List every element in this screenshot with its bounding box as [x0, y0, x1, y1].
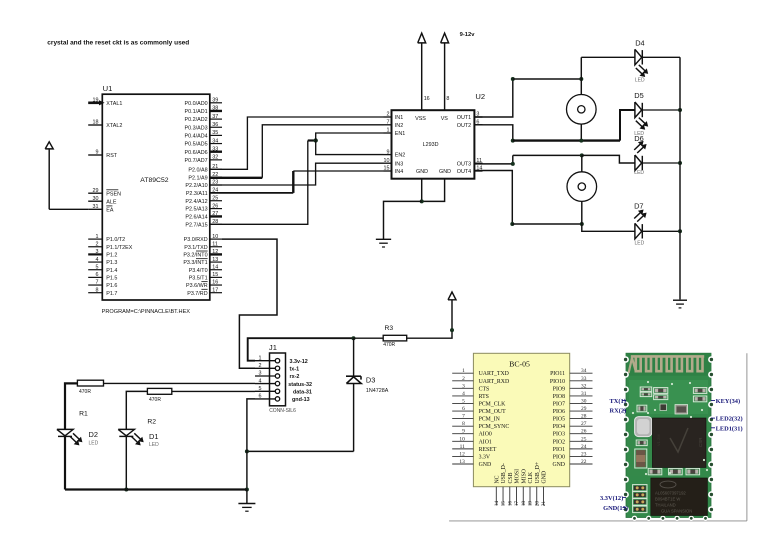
svg-text:25: 25 — [581, 436, 587, 442]
svg-text:RTS: RTS — [479, 394, 489, 400]
wire to motor M2 bottom — [512, 223, 582, 225]
svg-text:LED2(32): LED2(32) — [716, 416, 743, 423]
pin 6 J1 gnd-13 — [255, 394, 310, 404]
pin 28 HC-05 PIO5 — [553, 414, 593, 423]
svg-text:CSR: CSR — [698, 437, 703, 447]
R1 label — [79, 411, 88, 418]
svg-text:19: 19 — [528, 501, 534, 507]
wire D5 to rail — [642, 109, 680, 111]
junction EN tie — [314, 138, 318, 142]
svg-text:32: 32 — [581, 383, 587, 389]
R2 label — [147, 419, 156, 426]
LED D2 — [57, 429, 73, 436]
svg-text:P0.6/AD6: P0.6/AD6 — [185, 150, 208, 156]
svg-text:EN1: EN1 — [395, 131, 406, 137]
svg-text:31: 31 — [93, 204, 99, 210]
svg-text:P2.1/A9: P2.1/A9 — [188, 175, 207, 181]
svg-text:AIO0: AIO0 — [479, 432, 492, 438]
wire to D6 — [582, 155, 635, 163]
svg-text:D5: D5 — [634, 91, 643, 100]
pin 5 HC-05 PCM_CLK — [452, 398, 506, 407]
svg-text:P1.3: P1.3 — [106, 260, 117, 266]
junction bottom rail — [245, 488, 249, 492]
svg-text:CONN-SIL6: CONN-SIL6 — [269, 408, 296, 414]
wire RXD to J1 tx — [222, 239, 277, 368]
LED D7 — [635, 223, 642, 239]
svg-text:XTAL1: XTAL1 — [106, 101, 122, 107]
svg-text:PIO3: PIO3 — [553, 432, 565, 438]
D7 value LED — [635, 240, 645, 246]
svg-text:EA: EA — [106, 207, 114, 213]
photo label LED2(32) — [711, 416, 743, 423]
svg-text:GND: GND — [416, 169, 428, 175]
svg-text:IN3: IN3 — [395, 161, 403, 167]
photo label GND(13) — [603, 505, 628, 512]
svg-text:PIO5: PIO5 — [553, 417, 565, 423]
pin 24 HC-05 PIO1 — [553, 444, 593, 453]
module HC-05 symbol body — [473, 353, 569, 486]
svg-text:U1: U1 — [103, 84, 113, 93]
wire M1 top lead — [580, 79, 582, 95]
svg-text:D1: D1 — [149, 432, 158, 441]
svg-text:27: 27 — [212, 211, 218, 217]
pin 8 P1.7 — [88, 287, 117, 296]
pin 19 XTAL1 — [88, 98, 122, 107]
svg-text:3.3V: 3.3V — [479, 454, 491, 460]
wire to D5 — [620, 110, 635, 141]
svg-text:20: 20 — [534, 501, 540, 507]
svg-text:D2: D2 — [89, 430, 98, 439]
pin 26 P2.5/A13 — [185, 203, 222, 212]
pin 1 HC-05 UART_TXD — [452, 368, 509, 377]
resistor R3 — [383, 335, 407, 341]
resistor R1 — [77, 380, 103, 386]
svg-text:16: 16 — [507, 501, 513, 507]
svg-text:P2.3/A11: P2.3/A11 — [186, 191, 208, 197]
pin 10 IN3 — [384, 158, 404, 167]
svg-text:OUT3: OUT3 — [457, 161, 471, 167]
svg-text:1N4728A: 1N4728A — [366, 388, 389, 394]
power arrow at R3 — [448, 292, 456, 300]
wire EN1 tie EN2 — [316, 133, 384, 155]
power arrow VS 9-12v — [441, 33, 449, 110]
svg-text:3.3V(12): 3.3V(12) — [600, 495, 623, 502]
svg-text:P2.2/A10: P2.2/A10 — [185, 183, 207, 189]
pin 13 P3.3/INT1 — [183, 257, 222, 266]
pin 4 J1 status-32 — [255, 378, 312, 388]
pin 29 HC-05 PIO6 — [553, 406, 593, 415]
pin 14 HC-05 NC — [494, 475, 501, 506]
pin 10 P3.0/RXD — [184, 234, 222, 243]
svg-text:PROGRAM=C:\PINNACLE\BT.HEX: PROGRAM=C:\PINNACLE\BT.HEX — [102, 309, 191, 315]
note text — [47, 40, 189, 47]
svg-text:P1.4: P1.4 — [106, 268, 117, 274]
U2 label — [475, 92, 485, 101]
wire to D7 — [582, 224, 635, 231]
svg-text:data-31: data-31 — [293, 390, 312, 396]
wire GND2 U2 — [422, 179, 445, 202]
svg-text:1: 1 — [259, 355, 262, 361]
svg-text:6: 6 — [96, 272, 99, 278]
svg-text:P0.2/AD2: P0.2/AD2 — [185, 117, 208, 123]
pin 31 HC-05 PIO8 — [553, 391, 593, 400]
pin 2 P1.1/T2EX — [88, 241, 133, 250]
wire R1 to D2 — [65, 383, 77, 429]
pin 23 HC-05 PIO0 — [553, 451, 593, 460]
svg-text:14: 14 — [494, 501, 500, 507]
svg-text:2: 2 — [259, 363, 262, 369]
pin 21 P2.0/A8 — [188, 164, 222, 173]
svg-text:P2.4/A12: P2.4/A12 — [185, 199, 207, 205]
svg-text:P2.7/A15: P2.7/A15 — [185, 222, 207, 228]
svg-text:CSB: CSB — [508, 472, 514, 483]
svg-text:rx-2: rx-2 — [290, 374, 300, 380]
svg-text:AIO1: AIO1 — [479, 439, 492, 445]
IC U2 L293D body — [392, 110, 475, 179]
pin 22 HC-05 GND — [552, 459, 592, 468]
pin 38 P0.1/AD1 — [185, 106, 222, 115]
svg-text:P0.5/AD5: P0.5/AD5 — [185, 142, 208, 148]
svg-text:11: 11 — [212, 241, 218, 247]
junction U2 gnd — [420, 199, 424, 203]
svg-text:38: 38 — [212, 106, 218, 112]
svg-text:GUA SPANSION: GUA SPANSION — [661, 509, 692, 514]
svg-text:TX(1): TX(1) — [610, 398, 626, 405]
svg-text:GND(13): GND(13) — [603, 505, 628, 512]
svg-text:AL05607397192: AL05607397192 — [655, 491, 686, 496]
pin 3 HC-05 CTS — [452, 383, 489, 392]
svg-text:22: 22 — [581, 459, 587, 465]
D3 value 1N4728A — [366, 388, 389, 394]
svg-text:status-32: status-32 — [288, 382, 312, 388]
junction M1 top — [579, 77, 583, 81]
svg-text:USB_D-: USB_D- — [501, 463, 507, 483]
D2 label — [89, 430, 98, 439]
svg-text:L293D: L293D — [423, 142, 439, 148]
svg-text:7: 7 — [462, 414, 465, 420]
wire EA to arrow — [49, 208, 88, 210]
svg-text:P2.0/A8: P2.0/A8 — [188, 167, 207, 173]
svg-text:tx-1: tx-1 — [290, 367, 300, 373]
svg-text:EN2: EN2 — [395, 153, 406, 159]
svg-text:P1.0/T2: P1.0/T2 — [106, 237, 125, 243]
svg-text:ALE: ALE — [106, 199, 117, 205]
junction M2 top — [580, 153, 584, 157]
wire R3 left — [354, 337, 384, 339]
LED D6 — [635, 155, 642, 171]
pin 11 P3.1/TXD — [184, 241, 222, 250]
LED D4 — [635, 49, 642, 65]
pin 1 J1 3.3v-12 — [255, 355, 308, 365]
svg-text:27: 27 — [581, 421, 587, 427]
wire thick motor M1 bottom rail — [513, 139, 620, 141]
svg-text:31: 31 — [581, 391, 587, 397]
svg-text:6: 6 — [259, 394, 262, 400]
pin 16 VSS label — [415, 96, 430, 122]
pin 5 J1 data-31 — [255, 386, 312, 396]
svg-text:NC: NC — [495, 475, 501, 483]
D7 arrows — [634, 210, 646, 222]
wire to motor M2 top — [513, 154, 582, 156]
pin 6 HC-05 PCM_OUT — [452, 406, 506, 415]
svg-text:9: 9 — [96, 150, 99, 156]
wire D7 to rail — [642, 230, 680, 232]
svg-text:10: 10 — [459, 436, 465, 442]
svg-text:P2.6/A14: P2.6/A14 — [185, 215, 207, 221]
wire R2 to D1 — [126, 391, 147, 429]
J1 value CONN-SIL6 — [269, 408, 296, 414]
svg-text:P0.7/AD7: P0.7/AD7 — [185, 158, 208, 164]
svg-text:4: 4 — [96, 257, 99, 263]
pin 39 P0.0/AD0 — [185, 98, 222, 107]
wire bottom rail LEDs — [65, 488, 247, 490]
svg-text:LED: LED — [635, 78, 645, 84]
svg-text:9: 9 — [462, 429, 465, 435]
wire OUT2 down — [474, 125, 512, 141]
svg-text:28: 28 — [581, 414, 587, 420]
svg-text:D3: D3 — [366, 375, 375, 384]
pin 10 HC-05 AIO1 — [452, 436, 492, 445]
pin 14 P3.4/T0 — [189, 264, 222, 273]
wire to motor M1 top — [513, 78, 582, 80]
svg-text:VS: VS — [441, 116, 449, 122]
svg-text:34: 34 — [212, 138, 218, 144]
svg-text:RX(2): RX(2) — [610, 408, 627, 415]
D5 arrows — [636, 118, 648, 130]
pin 1 EN1 — [384, 128, 406, 137]
svg-text:PIO11: PIO11 — [550, 371, 565, 377]
pin 16 P3.6/WR — [186, 280, 222, 289]
svg-text:470R: 470R — [383, 342, 395, 348]
pin 4 HC-05 RTS — [452, 391, 489, 400]
svg-text:5: 5 — [462, 398, 465, 404]
pin 1 P1.0/T2 — [88, 234, 125, 243]
svg-text:P3.5/T1: P3.5/T1 — [189, 275, 208, 281]
pin 2 J1 tx-1 — [255, 363, 299, 373]
pin 2 HC-05 UART_RXD — [452, 376, 509, 385]
svg-text:R3: R3 — [385, 325, 394, 332]
svg-text:VSS: VSS — [415, 116, 426, 122]
svg-text:8: 8 — [96, 287, 99, 293]
pin 29 PSEN — [88, 188, 121, 197]
pin 3 OUT1 — [457, 112, 483, 121]
photo label 3.3V(12) — [600, 495, 626, 502]
svg-text:4: 4 — [462, 391, 465, 397]
IC U1 AT89C52 body — [102, 94, 210, 300]
svg-text:PIO10: PIO10 — [550, 379, 565, 385]
svg-text:PIO1: PIO1 — [553, 447, 565, 453]
D1 label — [149, 432, 158, 441]
svg-text:RST: RST — [106, 153, 117, 159]
D4 arrows — [636, 65, 648, 77]
svg-text:KEY(34): KEY(34) — [716, 398, 741, 405]
svg-text:CLK: CLK — [528, 471, 534, 483]
svg-text:R1: R1 — [79, 411, 88, 418]
svg-text:P3.4/T0: P3.4/T0 — [189, 268, 208, 274]
D5 value LED — [634, 131, 644, 137]
svg-text:P0.4/AD4: P0.4/AD4 — [185, 134, 208, 140]
svg-text:13: 13 — [459, 459, 465, 465]
pin 23 P2.2/A10 — [185, 180, 222, 189]
pin 11 OUT3 — [457, 158, 483, 167]
pin 13 HC-05 GND — [452, 459, 491, 468]
pin 31 EA — [88, 204, 114, 213]
D7 label — [634, 202, 643, 211]
pin 24 P2.3/A11 — [186, 188, 222, 197]
pin 27 P2.6/A14 — [185, 211, 222, 220]
pin 12 P3.2/INT0 — [183, 249, 222, 258]
wire D1 down — [125, 436, 127, 489]
svg-text:29: 29 — [93, 188, 99, 194]
svg-text:30: 30 — [93, 196, 99, 202]
D2 arrows — [70, 433, 82, 445]
svg-text:IN4: IN4 — [395, 169, 403, 175]
svg-text:17: 17 — [212, 287, 218, 293]
junction A — [511, 77, 515, 81]
svg-text:GND: GND — [439, 169, 451, 175]
pin 2 IN1 — [384, 112, 404, 121]
svg-text:PCM_OUT: PCM_OUT — [479, 409, 507, 415]
pin 5 P1.4 — [88, 264, 117, 273]
svg-text:2: 2 — [387, 112, 390, 118]
svg-text:GND: GND — [552, 462, 565, 468]
svg-text:P1.1/T2EX: P1.1/T2EX — [106, 245, 132, 251]
pin 19 HC-05 CLK — [528, 471, 535, 506]
svg-text:37: 37 — [212, 114, 218, 120]
svg-text:crystal and the reset ckt is a: crystal and the reset ckt is as commonly… — [47, 40, 189, 47]
D2 value LED — [89, 440, 99, 446]
svg-text:PIO0: PIO0 — [553, 454, 565, 460]
wire M2 top lead — [581, 155, 583, 171]
svg-text:PIO7: PIO7 — [553, 401, 565, 407]
svg-text:3: 3 — [96, 249, 99, 255]
U2 value L293D — [423, 142, 439, 148]
svg-text:18: 18 — [93, 120, 99, 126]
pin 32 P0.7/AD7 — [185, 155, 222, 164]
svg-text:19: 19 — [93, 98, 99, 104]
svg-text:gnd-13: gnd-13 — [292, 397, 310, 403]
svg-text:P3.0/RXD: P3.0/RXD — [184, 237, 208, 243]
resistor R2 — [147, 388, 171, 394]
svg-text:V1.2M: V1.2M — [656, 434, 661, 446]
photo label RX(2) — [610, 408, 627, 415]
svg-text:1: 1 — [387, 128, 390, 134]
wire ground stub bottom — [246, 490, 248, 504]
pin 9 RST — [88, 150, 118, 159]
svg-text:11: 11 — [476, 158, 482, 164]
svg-text:2: 2 — [96, 241, 99, 247]
wire M1 bottom lead — [580, 124, 582, 141]
pin 6 P1.5 — [88, 272, 117, 281]
wire P2.3/A11 to IN4 — [210, 171, 384, 193]
svg-text:12: 12 — [212, 249, 218, 255]
svg-text:D6: D6 — [634, 134, 643, 143]
HC-05 title — [509, 360, 530, 369]
pin 37 P0.2/AD2 — [185, 114, 222, 123]
pin 33 HC-05 PIO10 — [550, 376, 593, 385]
D6 label — [634, 134, 643, 143]
LED D1 — [118, 429, 134, 436]
svg-text:23: 23 — [581, 451, 587, 457]
svg-text:PCM_SYNC: PCM_SYNC — [479, 424, 510, 430]
svg-text:P1.5: P1.5 — [106, 275, 117, 281]
svg-text:34: 34 — [581, 368, 587, 374]
wire right rail — [679, 57, 681, 299]
svg-text:GND: GND — [479, 462, 492, 468]
svg-text:LED: LED — [634, 170, 644, 176]
svg-text:5: 5 — [96, 264, 99, 270]
junction gnd mid — [245, 449, 249, 453]
svg-text:IN2: IN2 — [395, 123, 403, 129]
svg-text:21: 21 — [541, 501, 547, 507]
svg-text:GND: GND — [542, 471, 548, 484]
svg-text:P2.5/A13: P2.5/A13 — [185, 207, 207, 213]
svg-text:29: 29 — [581, 406, 587, 412]
svg-text:P3.6/WR: P3.6/WR — [186, 283, 208, 289]
svg-text:15: 15 — [501, 501, 507, 507]
junction D1 bottom — [124, 488, 128, 492]
svg-text:15: 15 — [384, 166, 390, 172]
wire J1 status to R1 — [104, 382, 256, 384]
pin 7 IN2 — [384, 120, 404, 129]
pin 26 HC-05 PIO3 — [553, 429, 593, 438]
svg-text:33: 33 — [212, 146, 218, 152]
svg-text:UART_TXD: UART_TXD — [479, 371, 509, 377]
svg-text:18: 18 — [521, 501, 527, 507]
svg-text:7: 7 — [96, 280, 99, 286]
pin 30 HC-05 PIO7 — [553, 398, 593, 407]
svg-text:PIO2: PIO2 — [553, 439, 565, 445]
svg-text:14: 14 — [212, 264, 218, 270]
svg-text:OUT1: OUT1 — [457, 115, 471, 121]
junction D — [510, 222, 514, 226]
D1 arrows — [131, 433, 143, 445]
D6 arrows — [634, 141, 646, 153]
junction D3 top — [352, 336, 356, 340]
svg-text:4: 4 — [259, 378, 262, 384]
wire P2.7/A15 to EN stub — [210, 141, 316, 225]
pin 21 HC-05 GND — [541, 471, 548, 506]
svg-text:P0.0/AD0: P0.0/AD0 — [185, 101, 208, 107]
wire P2.2/A10 to IN3 — [210, 163, 384, 185]
wire D4 to rail — [642, 56, 680, 58]
pin 4 P1.3 — [88, 257, 117, 266]
motor M1 — [567, 95, 597, 125]
svg-text:B094BT1E W: B094BT1E W — [655, 497, 680, 502]
pin 8 HC-05 PCM_SYNC — [452, 421, 509, 430]
junction rail D7 — [678, 229, 682, 233]
pin 12 HC-05 3.3V — [452, 451, 491, 460]
svg-text:9-12v: 9-12v — [460, 32, 476, 38]
power arrow VCC at EA — [45, 142, 53, 210]
photo frame — [449, 353, 747, 521]
wire D2 down — [64, 436, 66, 489]
svg-text:LED1(31): LED1(31) — [716, 425, 743, 432]
pin 7 P1.6 — [88, 280, 117, 289]
wire D3 top lead — [353, 338, 355, 376]
pin 20 HC-05 USB_D+ — [534, 462, 541, 506]
svg-text:PIO6: PIO6 — [553, 409, 565, 415]
pin 28 P2.7/A15 — [185, 219, 222, 228]
svg-text:D7: D7 — [634, 202, 643, 211]
svg-text:BC-05: BC-05 — [509, 360, 530, 369]
motor M2 — [567, 172, 597, 202]
pin 27 HC-05 PIO4 — [553, 421, 593, 430]
junction M1 bottom — [579, 139, 583, 143]
svg-text:MOSI: MOSI — [515, 469, 521, 484]
svg-text:UART_RXD: UART_RXD — [479, 379, 510, 385]
junction rail D5 — [678, 108, 682, 112]
